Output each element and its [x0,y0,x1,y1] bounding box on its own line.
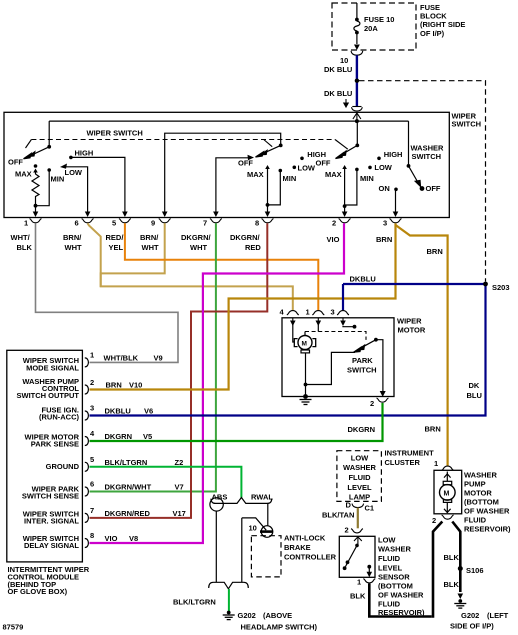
svg-text:(BOTTOM: (BOTTOM [378,582,413,591]
fuse block dashed box [332,3,416,50]
module pin numbers [90,350,95,540]
svg-text:2: 2 [345,526,349,535]
svg-text:C1: C1 [365,504,375,513]
svg-text:BRN: BRN [376,235,392,244]
washer switch arm [409,166,424,190]
svg-text:5: 5 [112,219,116,228]
dashed mechanical rail [26,140,348,150]
pump M symbol [440,485,456,501]
svg-text:DELAY SIGNAL: DELAY SIGNAL [24,541,79,550]
svg-text:(ABOVE: (ABOVE [263,611,292,620]
svg-text:LOW: LOW [351,454,369,463]
svg-text:GROUND: GROUND [46,462,80,471]
wire BRN pin3 to module pin2 [90,223,396,389]
svg-text:WHT: WHT [190,243,207,252]
svg-text:ON: ON [379,184,390,193]
contact MAX 1 [34,164,38,168]
switch pin exit arrows [33,212,399,218]
svg-text:MODE SIGNAL: MODE SIGNAL [26,364,79,373]
svg-text:MIN: MIN [283,174,297,183]
contact MIN 3 [355,168,359,172]
svg-text:1: 1 [24,219,28,228]
svg-text:8: 8 [255,219,259,228]
svg-text:RESERVOIR): RESERVOIR) [464,525,511,534]
switch arm 2 [256,145,281,157]
svg-text:DKGRN: DKGRN [348,425,376,434]
washer switch feed [408,121,410,166]
svg-text:BLK: BLK [444,553,460,562]
svg-text:V9: V9 [154,354,163,363]
svg-text:BLU: BLU [467,391,482,400]
svg-text:RED/: RED/ [106,233,125,242]
contact LOW 1 to pin 6 [64,167,88,212]
svg-text:VIO: VIO [327,235,340,244]
svg-text:INSTRUMENT: INSTRUMENT [385,448,435,457]
svg-text:CONTROLLER: CONTROLLER [284,553,337,562]
svg-text:OFF: OFF [8,158,23,167]
svg-text:LOW: LOW [65,168,83,177]
svg-text:SWITCH: SWITCH [452,120,482,129]
svg-text:3: 3 [383,219,387,228]
svg-text:OF GLOVE BOX): OF GLOVE BOX) [8,587,68,596]
svg-text:BRAKE: BRAKE [284,543,311,552]
wire BLK/LTGRN module pin5 to ABS [90,467,242,498]
svg-text:1: 1 [306,308,310,317]
wire BLK up to pump pin2 [433,522,442,618]
contact HIGH 1 to pin 5 [69,156,73,160]
connector at wiper switch top [352,106,361,108]
svg-text:WHT/: WHT/ [11,233,31,242]
svg-text:10: 10 [249,524,257,533]
svg-text:7: 7 [90,506,94,515]
wire BRN branch to washer pump [396,225,448,466]
pump caption [464,471,511,534]
svg-text:SWITCH OUTPUT: SWITCH OUTPUT [17,391,80,400]
svg-text:RED: RED [245,243,261,252]
svg-text:3: 3 [331,308,335,317]
intermittent wiper control module box [7,350,83,562]
svg-text:8: 8 [90,531,94,540]
sensor contact to pin 1 [367,565,371,569]
svg-text:1: 1 [90,350,94,359]
rail wire pin9 [165,133,281,216]
svg-text:OFF: OFF [426,184,441,193]
switch pin numbers [24,219,387,228]
svg-text:V10: V10 [129,380,142,389]
svg-text:V8: V8 [129,534,138,543]
svg-text:BLK: BLK [444,580,460,589]
svg-text:2: 2 [370,399,374,408]
switch section 3 feed [356,121,358,145]
svg-text:DKGRN: DKGRN [105,432,133,441]
wire BRN/WHT pin9 [101,223,165,273]
svg-text:G202: G202 [461,611,479,620]
anti-lock brake controller dashed box [251,536,281,577]
svg-text:7: 7 [203,219,207,228]
wire DKGRN/WHT pin7 to module pin6 [90,223,216,491]
motor M symbol [293,322,295,342]
wire BLK/LTGRN to ground [228,589,230,611]
RWAL breaker [267,503,269,525]
wire WHT/BLK pin1 to module pin1 [36,223,179,362]
svg-text:6: 6 [90,480,94,489]
svg-text:V17: V17 [173,509,186,518]
svg-text:FLUID: FLUID [464,516,487,525]
bus wire inside switch [49,120,408,122]
dashed wire to S203 [359,81,486,282]
svg-text:HIGH: HIGH [75,149,94,158]
contact HIGH 3 [377,157,381,161]
park switch [374,338,378,342]
svg-text:MIN: MIN [51,175,65,184]
svg-text:BLK: BLK [350,592,366,601]
svg-text:WHT/BLK: WHT/BLK [104,354,139,363]
svg-text:DK: DK [469,381,480,390]
svg-text:FLUID: FLUID [378,554,401,563]
svg-text:1: 1 [357,578,361,587]
svg-text:MAX: MAX [247,170,264,179]
svg-text:WIPER: WIPER [397,317,422,326]
contact MIN 2 [279,169,283,173]
svg-text:V7: V7 [175,483,184,492]
ABS circle [210,498,223,511]
module caption [8,565,90,596]
wire DK BLU to motor pin3 [342,284,344,311]
wire RED/YEL pin5 to motor pin1 [125,223,318,311]
svg-text:SWITCH SENSE: SWITCH SENSE [22,492,79,501]
wire DKGRN/RED pin8 to module pin7 [90,223,268,518]
svg-text:Z2: Z2 [175,458,184,467]
svg-text:SENSOR: SENSOR [378,573,410,582]
contact HIGH 2 [300,157,304,161]
wire VIO pin2 to module pin8 [90,223,345,543]
svg-text:ANTI-LOCK: ANTI-LOCK [284,534,326,543]
svg-text:5: 5 [90,455,94,464]
svg-text:DKBLU: DKBLU [350,275,376,284]
switch section 1 feed [48,121,50,147]
contact MAX 2 to pin 8 [265,165,270,169]
switch arm 3 [336,145,358,158]
svg-text:WASHER: WASHER [378,545,412,554]
svg-text:S106: S106 [466,566,484,575]
svg-text:LEVEL: LEVEL [347,483,372,492]
splice S106 [458,566,463,571]
switch arm 1 [24,147,50,159]
svg-text:3: 3 [90,404,94,413]
svg-text:BLK/TAN: BLK/TAN [322,511,354,520]
wiper motor box [282,318,394,397]
svg-text:M: M [302,340,307,347]
svg-text:BRN/: BRN/ [140,233,159,242]
svg-text:(RUN-ACC): (RUN-ACC) [39,413,79,422]
svg-text:DK BLU: DK BLU [324,89,352,98]
ABS connector top brace [211,498,272,504]
module pin wire labels [104,354,186,543]
svg-text:WIPER SWITCH: WIPER SWITCH [87,129,143,138]
motor pin3 internal to park switch contact [343,325,355,328]
svg-text:BRN: BRN [106,380,122,389]
module internal labels [17,356,80,550]
svg-text:INTER. SIGNAL: INTER. SIGNAL [24,517,79,526]
svg-text:6: 6 [75,219,79,228]
svg-text:M: M [444,491,450,498]
svg-text:RWAL: RWAL [251,493,273,502]
wire BLK/TAN [357,508,359,529]
sensor caption [378,536,425,618]
svg-text:LAMP: LAMP [349,492,370,501]
contact MAX 3 to pin 2 [342,165,347,169]
direction arrow [344,99,348,107]
wire DK BLU S203 run [90,284,486,416]
svg-text:OF WASHER: OF WASHER [464,507,510,516]
svg-text:PARK SENSE: PARK SENSE [31,440,79,449]
svg-text:BRN/: BRN/ [63,233,82,242]
ground under motor [300,400,312,405]
svg-text:2: 2 [90,378,94,387]
svg-text:DKGRN/: DKGRN/ [230,233,260,242]
svg-text:DKGRN/WHT: DKGRN/WHT [105,483,152,492]
svg-text:MAX: MAX [325,170,342,179]
svg-text:MOTOR: MOTOR [464,489,492,498]
contact OFF 2 to pin 7 [216,158,250,212]
svg-text:SIDE OF I/P): SIDE OF I/P) [450,622,494,631]
splice junction on dk blu [355,79,359,83]
svg-text:WASHER: WASHER [464,471,498,480]
washer pump motor box [434,470,462,514]
svg-text:ABS: ABS [212,493,228,502]
svg-text:LEVEL: LEVEL [378,564,403,573]
ABS connector bottom brace [209,582,249,589]
resistor R delay [32,172,39,206]
svg-text:FUSE 10: FUSE 10 [364,15,394,24]
svg-text:OFF: OFF [316,159,331,168]
svg-text:WHT: WHT [142,243,159,252]
wiper switch box [4,112,449,217]
svg-text:OF WASHER: OF WASHER [378,591,424,600]
svg-text:VIO: VIO [105,534,118,543]
svg-text:9: 9 [151,219,155,228]
svg-text:MIN: MIN [360,174,374,183]
svg-text:S203: S203 [492,283,510,292]
svg-text:LOW: LOW [374,163,392,172]
wire BLK pump to S106 and ground [452,522,460,593]
svg-text:BLK/LTGRN: BLK/LTGRN [105,458,148,467]
contact LOW 2 [293,166,297,170]
low washer fluid level sensor box [339,536,375,577]
wire DKGRN motor pin2 to module pin4 [90,403,383,441]
wire BRN/WHT pin6 [88,223,293,311]
svg-text:10: 10 [340,56,348,65]
svg-text:1: 1 [434,459,438,468]
fuse block connector arc pin 10 [351,51,363,55]
svg-text:FLUID: FLUID [348,473,371,482]
svg-text:WHT: WHT [65,243,82,252]
svg-text:DKGRN/: DKGRN/ [181,233,211,242]
svg-text:(LEFT: (LEFT [487,611,509,620]
svg-text:LOW: LOW [298,163,316,172]
svg-text:87579: 87579 [3,623,24,632]
svg-text:DKBLU: DKBLU [105,407,131,416]
ground G202 left [227,611,231,615]
wire dk blu from fuse [356,55,358,106]
switch wire colour labels [11,233,393,252]
svg-text:V6: V6 [144,407,153,416]
svg-text:OFF: OFF [238,159,253,168]
svg-text:DK BLU: DK BLU [324,65,352,74]
svg-text:2: 2 [332,219,336,228]
wire BLK sensor to pump [369,584,431,617]
svg-text:SWITCH: SWITCH [347,366,377,375]
sensor float switch [355,544,359,548]
svg-text:BRN: BRN [425,425,441,434]
ground G202 right [458,599,462,603]
svg-text:MOTOR: MOTOR [398,326,426,335]
svg-text:SWITCH: SWITCH [412,152,442,161]
svg-text:BLK/LTGRN: BLK/LTGRN [173,598,216,607]
svg-text:PARK: PARK [352,356,373,365]
contact LOW 3 [368,166,372,170]
svg-text:V5: V5 [143,432,152,441]
svg-text:PUMP: PUMP [464,480,486,489]
svg-text:HIGH: HIGH [384,150,403,159]
switch section 2 pivot [279,144,283,148]
svg-text:HEADLAMP SWITCH): HEADLAMP SWITCH) [241,623,318,632]
svg-text:DKGRN/RED: DKGRN/RED [105,509,151,518]
svg-text:CLUSTER: CLUSTER [385,458,421,467]
motor brush ground line [305,353,307,397]
svg-text:LOW: LOW [378,536,396,545]
module pin arcs [85,358,89,548]
svg-text:D: D [346,501,352,510]
fuse F10 [354,3,360,44]
svg-text:2: 2 [432,516,436,525]
instrument cluster lamp dashed box [337,451,382,502]
svg-text:BRN: BRN [427,247,443,256]
switch pin connector arcs [30,219,402,223]
svg-text:YEL: YEL [109,243,124,252]
splice S203 [483,282,488,287]
svg-text:20A: 20A [364,24,378,33]
svg-text:MAX: MAX [15,170,32,179]
svg-text:(BOTTOM: (BOTTOM [464,498,499,507]
dashed link pin1 to park switch [317,324,319,332]
svg-text:G202: G202 [238,611,256,620]
contact MIN 1 [47,168,51,172]
svg-text:BLK: BLK [17,243,33,252]
svg-text:OF I/P): OF I/P) [420,29,445,38]
svg-text:WASHER: WASHER [343,463,377,472]
